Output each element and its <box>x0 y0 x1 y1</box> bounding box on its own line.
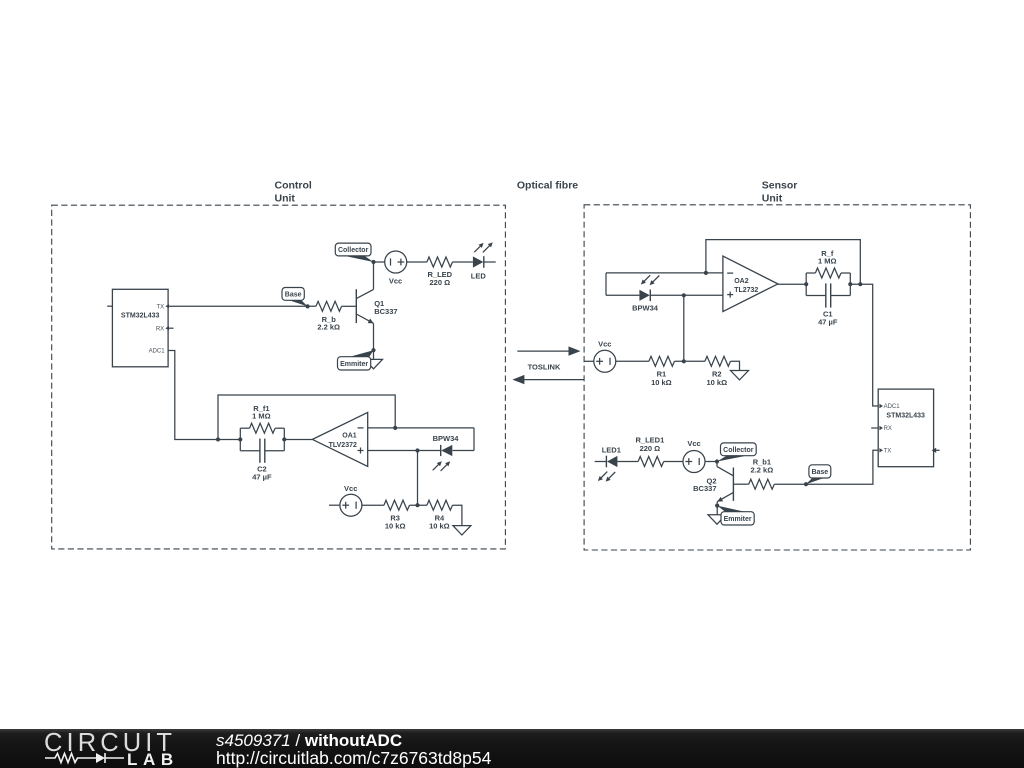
node bottom branch <box>682 293 686 297</box>
node emitter Q2 <box>715 504 719 508</box>
capacitor C2 47uF <box>240 450 260 452</box>
svg-text:LED: LED <box>471 272 487 281</box>
svg-text:Emmiter: Emmiter <box>724 516 752 523</box>
wire R3 to R4 <box>410 504 427 506</box>
wire node up to photodiode branch <box>683 295 685 361</box>
node collector Q2 <box>715 459 719 463</box>
wire Q2 base to R_b1 <box>733 483 748 485</box>
wire R2 to ground <box>731 361 740 370</box>
BPW34 light arrows (sensor) <box>643 275 650 282</box>
pin ADC1 (sensor MCU) <box>879 404 883 408</box>
flag Collector (control) <box>342 255 374 262</box>
svg-text:Base: Base <box>285 292 302 299</box>
resistor R_f 1M <box>815 268 841 278</box>
resistor R4 10k <box>427 500 453 510</box>
source Vcc (sensor mid) <box>584 360 594 362</box>
svg-text:BC337: BC337 <box>693 484 716 493</box>
svg-text:BC337: BC337 <box>374 307 397 316</box>
resistor R_f1 1M <box>249 423 275 433</box>
source Vcc (control bottom) <box>329 504 340 506</box>
wire RC to opamp output <box>284 438 312 440</box>
wire OA1 minus input <box>368 427 474 429</box>
svg-text:OA1: OA1 <box>342 432 357 439</box>
MCU STM32L433 (sensor) <box>878 389 933 467</box>
svg-text:TL2732: TL2732 <box>734 287 758 294</box>
svg-text:2.2 kΩ: 2.2 kΩ <box>751 465 774 474</box>
svg-text:TX: TX <box>157 304 165 310</box>
transistor Q1 BC337 <box>355 289 357 323</box>
flag Emmiter (control) <box>348 350 374 357</box>
node emitter <box>371 348 375 352</box>
wire R_LED to LED <box>453 261 473 263</box>
svg-text:BPW34: BPW34 <box>433 434 460 443</box>
svg-text:Unit: Unit <box>762 193 783 205</box>
sensor unit dashed box <box>584 205 970 550</box>
wire OA2 output <box>778 283 806 285</box>
svg-text:Collector: Collector <box>723 447 754 454</box>
wire Vcc to Q2 collector node <box>705 461 718 463</box>
MCU STM32L433 (control) <box>112 289 168 367</box>
node feedback left <box>216 437 220 441</box>
wire LED1 left stub <box>595 461 607 463</box>
op-amp OA1 TLV2372 (points left) <box>312 412 367 466</box>
svg-text:10 kΩ: 10 kΩ <box>706 378 727 387</box>
svg-text:BPW34: BPW34 <box>632 303 659 312</box>
capacitor C1 47uF <box>806 295 826 297</box>
node collector Q1 <box>371 260 375 264</box>
wire R_b to Q1 base <box>342 305 357 307</box>
svg-text:OA2: OA2 <box>734 278 749 285</box>
svg-text:1 MΩ: 1 MΩ <box>818 257 837 266</box>
svg-text:TLV2372: TLV2372 <box>329 442 357 449</box>
wire TX to R_b <box>168 305 316 307</box>
resistor R3 10k <box>384 500 410 510</box>
wire R_LED1 to Vcc <box>664 461 684 463</box>
svg-text:Vcc: Vcc <box>687 439 700 448</box>
node plus wire <box>415 448 419 452</box>
svg-text:Unit: Unit <box>275 193 296 205</box>
svg-text:10 kΩ: 10 kΩ <box>429 522 450 531</box>
TOSLINK arrow left <box>522 379 585 381</box>
flag Base (control) <box>288 300 308 307</box>
resistor R2 10k <box>705 356 731 366</box>
flag Emmiter (sensor) <box>717 506 747 513</box>
control unit dashed box <box>52 205 506 549</box>
svg-text:220 Ω: 220 Ω <box>429 278 450 287</box>
transistor Q2 BC337 (mirrored) <box>732 468 734 501</box>
svg-text:TOSLINK: TOSLINK <box>528 363 561 372</box>
feedback wire top loop (control) <box>218 395 395 439</box>
svg-text:TX: TX <box>884 449 892 455</box>
svg-text:Collector: Collector <box>338 247 369 254</box>
resistor R_LED1 220 <box>638 457 664 467</box>
svg-text:RX: RX <box>884 426 892 432</box>
svg-text:10 kΩ: 10 kΩ <box>385 522 406 531</box>
wire down to divider <box>417 451 419 506</box>
parallel group R_f / C1 <box>805 273 807 296</box>
wire Q1 emitter down <box>373 323 375 350</box>
svg-text:ADC1: ADC1 <box>149 349 166 355</box>
wire node to Vcc source <box>374 261 386 263</box>
stub left of MCU at TX <box>107 305 112 307</box>
svg-text:Emmiter: Emmiter <box>340 361 368 368</box>
svg-text:LED1: LED1 <box>602 445 621 454</box>
ground (emitter Q1) <box>365 359 383 368</box>
LED emission arrows <box>474 245 481 252</box>
svg-text:STM32L433: STM32L433 <box>121 313 160 320</box>
source Vcc (control top) <box>385 251 407 273</box>
diode LED <box>473 256 483 267</box>
parallel group R_f1 / C2 <box>239 428 241 451</box>
node divider (sensor) <box>682 359 686 363</box>
LED1 emission arrows <box>600 472 607 479</box>
svg-text:Vcc: Vcc <box>344 484 357 493</box>
TOSLINK arrow right <box>517 350 571 352</box>
right vertical joining inputs <box>473 428 475 451</box>
wire bottom photodiode branch <box>606 294 639 296</box>
resistor R1 10k <box>649 356 675 366</box>
feedback wire (sensor) <box>706 240 860 285</box>
svg-text:STM32L433: STM32L433 <box>886 412 925 419</box>
resistor R_LED 220 <box>427 257 453 267</box>
svg-text:1 MΩ: 1 MΩ <box>252 412 271 421</box>
ground (emitter Q2) <box>708 515 726 524</box>
photodiode BPW34 (sensor) loop <box>605 273 607 295</box>
source Vcc (sensor bottom) <box>683 451 705 473</box>
arrow into right edge of MCU <box>936 449 940 451</box>
svg-text:Optical fibre: Optical fibre <box>517 179 578 191</box>
wire Q1 collector up <box>373 262 375 289</box>
nodes around RC group <box>238 437 242 441</box>
svg-text:ADC1: ADC1 <box>884 404 901 410</box>
ground (R4) <box>453 526 471 535</box>
wire OA1 plus input with BPW34 <box>368 450 441 452</box>
wire RC to MCU ADC1 <box>850 284 878 406</box>
svg-text:47 µF: 47 µF <box>818 317 838 326</box>
ground (R2) <box>731 371 749 380</box>
wire R_b1 to MCU TX <box>774 450 878 484</box>
photodiode BPW34 symbol (sensor) <box>639 290 649 301</box>
svg-text:Control: Control <box>275 179 312 191</box>
flag Collector (sensor) <box>717 455 750 461</box>
node minus input (sensor) <box>704 271 708 275</box>
svg-text:Base: Base <box>811 469 828 476</box>
svg-text:Sensor: Sensor <box>762 179 798 191</box>
svg-text:RX: RX <box>156 326 164 332</box>
wire ADC1 down to opamp input line <box>168 351 240 440</box>
footer CircuitLab logo <box>0 729 1024 768</box>
svg-text:47 µF: 47 µF <box>252 473 272 482</box>
svg-text:220 Ω: 220 Ω <box>640 444 661 453</box>
svg-text:Vcc: Vcc <box>598 339 611 348</box>
wire R1 to R2 <box>675 360 705 362</box>
wire Q2 emitter down <box>716 502 718 506</box>
diode LED1 <box>605 456 607 468</box>
resistor R_b 2.2k <box>316 301 342 311</box>
svg-text:LAB: LAB <box>127 750 179 767</box>
BPW34 light arrows (control) <box>433 464 440 471</box>
resistor R_b1 2.2k <box>749 479 775 489</box>
svg-text:10 kΩ: 10 kΩ <box>651 378 672 387</box>
wire Vcc to R_LED <box>406 261 427 263</box>
op-amp OA2 TL2732 (points right) <box>723 256 778 312</box>
svg-text:Vcc: Vcc <box>389 276 402 285</box>
svg-text:2.2 kΩ: 2.2 kΩ <box>317 323 340 332</box>
photodiode BPW34 (control) <box>440 445 442 456</box>
wire R4 to ground <box>453 505 462 525</box>
flag Base (sensor) <box>806 478 825 484</box>
